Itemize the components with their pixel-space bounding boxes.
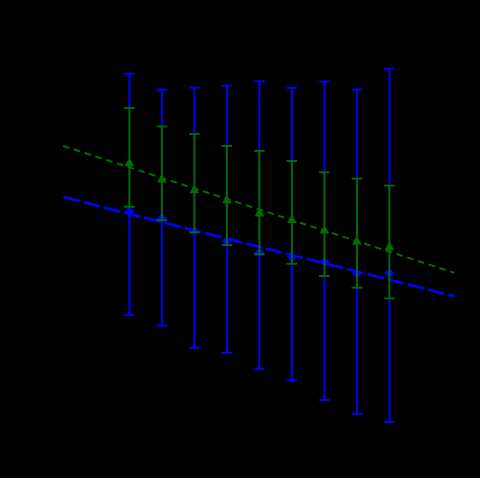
green triangle marker 5	[255, 208, 265, 217]
blue errorbar 2	[157, 90, 168, 326]
blue errorbar 4	[222, 86, 233, 353]
blue errorbar 7	[319, 82, 330, 401]
green errorbar 6	[287, 161, 298, 264]
blue errorbar 1	[124, 74, 135, 315]
green triangle marker 9	[385, 242, 395, 251]
green errorbar 9	[384, 186, 395, 299]
blue diamond marker 3	[189, 227, 199, 236]
green triangle marker 8	[352, 236, 362, 245]
green errorbar 7	[319, 172, 330, 276]
blue diamond marker 9	[384, 268, 394, 277]
blue diamond marker 1	[124, 207, 134, 216]
blue diamond marker 2	[157, 214, 167, 223]
blue errorbar 3	[189, 88, 200, 348]
green errorbar 2	[157, 127, 168, 221]
green fit line (short-dash regression)	[63, 146, 454, 273]
blue diamond marker 5	[254, 248, 264, 257]
green errorbar 1	[124, 108, 135, 207]
blue fit line (long-dash regression)	[63, 197, 454, 296]
blue errorbar 5	[254, 81, 265, 368]
green triangle marker 7	[320, 225, 330, 234]
green errorbar 4	[222, 146, 233, 245]
blue errorbar 8	[352, 90, 363, 414]
green errorbar 3	[189, 134, 200, 232]
green errorbar 8	[352, 179, 363, 288]
green triangle marker 2	[157, 174, 167, 183]
blue errorbar 6	[287, 88, 298, 381]
blue diamond marker 8	[352, 269, 362, 278]
green triangle marker 1	[125, 157, 135, 166]
green errorbar 5	[254, 151, 265, 255]
blue errorbar 9	[384, 69, 395, 422]
green triangle marker 6	[287, 214, 297, 223]
green triangle marker 4	[222, 195, 232, 204]
green triangle marker 3	[190, 185, 200, 194]
blue diamond marker 4	[222, 237, 232, 246]
blue diamond marker 7	[319, 257, 329, 266]
blue diamond marker 6	[287, 252, 297, 261]
